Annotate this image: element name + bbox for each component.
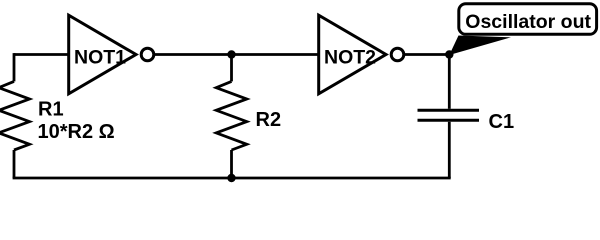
svg-text:NOT1: NOT1 (74, 46, 126, 68)
svg-text:NOT2: NOT2 (324, 46, 376, 68)
wire from NOT2 output to output node (405, 53, 450, 56)
svg-text:C1: C1 (489, 111, 515, 133)
callout box Oscillator out (459, 4, 597, 35)
svg-text:R2: R2 (256, 109, 282, 131)
node junction at R2 top (227, 50, 235, 58)
svg-text:R1: R1 (38, 99, 64, 121)
capacitor C1 bottom plate (418, 119, 480, 122)
resistor R1 (0, 81, 29, 150)
node junction oscillator output (445, 50, 453, 58)
wire bottom rail (13, 177, 451, 180)
wire from NOT1 output to NOT2 input (155, 53, 319, 56)
node junction at R2 bottom (227, 174, 235, 182)
wire top-left from left rail to NOT1 input (14, 53, 69, 56)
inverter bubble NOT2 (391, 48, 404, 61)
wire right rail upper stem to C1 (448, 55, 451, 109)
svg-text:10*R2 Ω: 10*R2 Ω (38, 121, 115, 143)
capacitor C1 top plate (418, 109, 480, 112)
wire right rail lower stem from C1 to bottom (448, 122, 451, 178)
op-amp NOT2 triangle (319, 15, 386, 94)
svg-text:Oscillator out: Oscillator out (465, 11, 591, 33)
wire left rail upper stem to R1 (13, 53, 16, 81)
wire R2 upper stem (230, 55, 233, 82)
resistor R2 (216, 81, 247, 150)
op-amp NOT1 triangle (69, 15, 136, 94)
wire left rail lower stem from R1 to bottom (13, 150, 16, 178)
callout pointer to output node (449, 36, 511, 56)
wire R2 lower stem (230, 150, 233, 178)
inverter bubble NOT1 (141, 48, 154, 61)
